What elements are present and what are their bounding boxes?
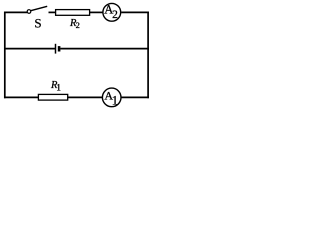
wire: top rail, R2 to A2	[90, 11, 103, 13]
svg-text:1: 1	[112, 94, 118, 108]
ammeter A1	[102, 88, 121, 108]
wire: bottom rail, A1 to right corner	[121, 96, 149, 98]
svg-text:S: S	[34, 16, 41, 31]
wire: bottom rail, left corner to R1	[4, 96, 39, 98]
switch S	[27, 6, 47, 13]
resistor R2	[56, 10, 90, 16]
wire: middle rail, right segment	[60, 48, 149, 50]
resistor R1	[38, 94, 67, 100]
wire: middle rail, left segment	[4, 48, 55, 50]
svg-text:2: 2	[112, 9, 118, 21]
svg-text:2: 2	[76, 20, 80, 30]
wire: top rail, A2 to right corner	[121, 11, 149, 13]
wire: top rail, corner to switch	[4, 11, 27, 13]
svg-text:1: 1	[56, 84, 61, 94]
battery B1	[56, 44, 60, 54]
wire: left vertical	[4, 12, 6, 99]
wire: right vertical	[147, 12, 149, 99]
wire: top rail, switch to R2	[49, 11, 56, 13]
ammeter A2	[103, 3, 121, 22]
wire: bottom rail, R1 to A1	[68, 96, 103, 98]
